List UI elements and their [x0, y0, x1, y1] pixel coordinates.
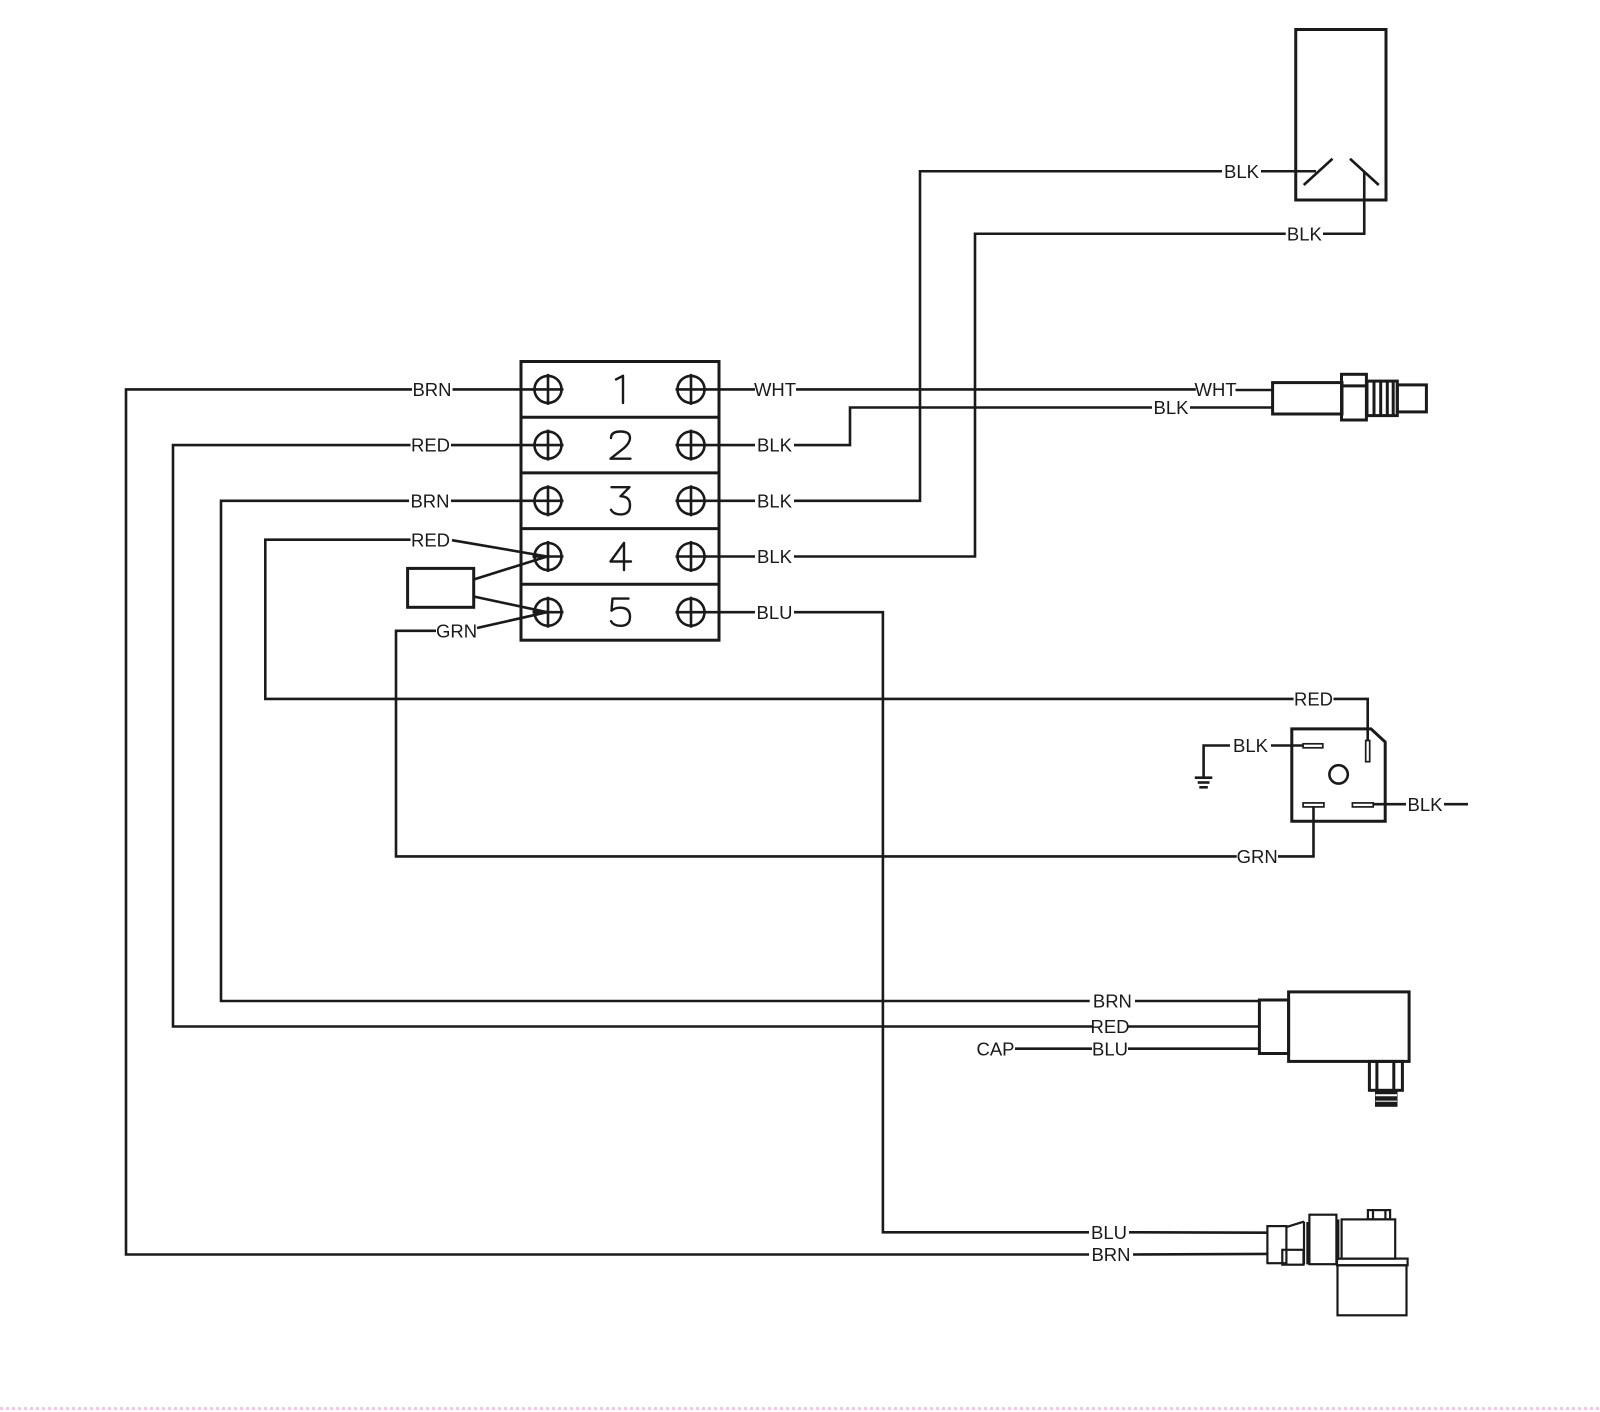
svg-text:BLK: BLK: [1154, 397, 1190, 418]
svg-text:WHT: WHT: [754, 379, 796, 400]
svg-text:BLK: BLK: [1287, 223, 1323, 244]
svg-text:BLU: BLU: [757, 602, 793, 623]
svg-text:BLU: BLU: [1091, 1222, 1127, 1243]
svg-text:BLK: BLK: [1408, 794, 1444, 815]
svg-text:RED: RED: [1090, 1016, 1129, 1037]
svg-text:CAP: CAP: [976, 1038, 1014, 1059]
svg-text:RED: RED: [411, 435, 450, 456]
svg-text:GRN: GRN: [436, 620, 477, 641]
svg-text:BLK: BLK: [1224, 161, 1260, 182]
svg-text:BLK: BLK: [757, 546, 793, 567]
svg-text:BRN: BRN: [1091, 1244, 1130, 1265]
svg-text:BRN: BRN: [410, 490, 449, 511]
svg-text:BRN: BRN: [412, 379, 451, 400]
svg-text:WHT: WHT: [1195, 379, 1237, 400]
svg-text:RED: RED: [1294, 689, 1333, 710]
svg-text:BLK: BLK: [1233, 735, 1269, 756]
svg-text:BLU: BLU: [1092, 1038, 1128, 1059]
svg-text:BLK: BLK: [757, 435, 793, 456]
svg-text:GRN: GRN: [1237, 846, 1278, 867]
svg-text:BRN: BRN: [1093, 991, 1132, 1012]
svg-text:RED: RED: [411, 529, 450, 550]
svg-text:BLK: BLK: [757, 490, 793, 511]
